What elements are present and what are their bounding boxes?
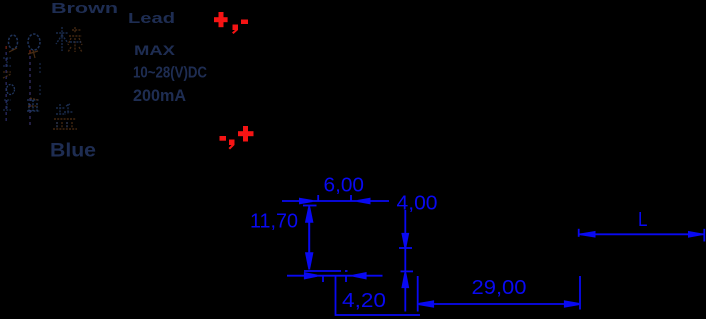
wire brown lead (left dashed vertical) [5,46,7,121]
svg-text:200mA: 200mA [133,87,186,105]
wire blue lead (second dashed vertical) [29,50,31,127]
svg-text:Blue: Blue [50,141,96,162]
svg-text:Brown: Brown [51,0,118,17]
dimension 11,70 (vertical) [306,206,312,270]
svg-text:11,70: 11,70 [250,210,298,233]
label CJK blue glyph [53,104,77,129]
part outline bottom edge (dash-dot) [304,270,348,272]
polarity mark +,- (red, top) [214,12,248,34]
svg-text:29,00: 29,00 [472,276,527,299]
junction glyph on wire 2 [27,63,40,111]
node terminal circle 1 [9,35,18,52]
baseline with 4,20 arrows [287,273,383,282]
svg-text:MAX: MAX [134,42,176,58]
svg-text:10~28(V)DC: 10~28(V)DC [133,65,207,82]
left column small glyphs [3,58,15,110]
svg-text:L: L [638,208,648,231]
svg-text:4,20: 4,20 [342,289,386,312]
svg-text:6,00: 6,00 [324,174,365,197]
svg-text:4,00: 4,00 [397,192,438,215]
leader for 4,20 [336,276,421,315]
polarity mark -,+ (red, bottom) [220,126,254,150]
dimension L [579,229,705,242]
dimension 4,00 (vertical) [399,210,413,312]
label CJK brown glyph [56,27,82,52]
dimension 29,00 [418,276,580,312]
part outline top edge [303,205,317,207]
dimension 6,00 [282,195,389,203]
node terminal circle 2 [28,34,40,58]
svg-text:Lead: Lead [128,10,175,27]
